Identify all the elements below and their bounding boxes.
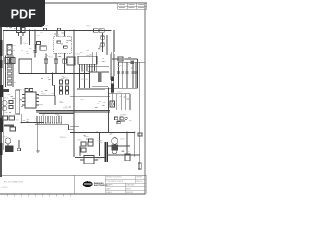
wire: left bus y122: [21, 122, 45, 124]
wire: varistor stub: [20, 36, 22, 45]
dark row component: [4, 125, 14, 127]
ic IC801 PFC controller: [78, 56, 97, 88]
wire: AC top bus: [3, 29, 112, 31]
label speckle texture: [4, 24, 132, 152]
transformer T802: [105, 142, 107, 162]
dark component K801: [4, 89, 10, 92]
svg-text:IC853: IC853: [96, 159, 102, 161]
transistor Q853: [112, 149, 117, 154]
small parts mid: [25, 89, 33, 92]
svg-text:DWG NO: DWG NO: [126, 192, 134, 194]
wire: secondary second bus: [77, 89, 105, 91]
svg-text:IC801: IC801: [75, 54, 81, 56]
left strip blobs: [0, 40, 3, 155]
svg-text:TITLE SMPS CIRCUIT: TITLE SMPS CIRCUIT: [106, 181, 123, 183]
tiny label speckle: [2, 25, 126, 161]
title block top border: [0, 174, 147, 177]
svg-text:S-PDP: S-PDP: [1, 187, 8, 189]
transistor Q803: [2, 100, 7, 110]
resistor R803: [63, 53, 66, 73]
resistor R802: [54, 53, 57, 73]
revision table text marks: [119, 4, 144, 8]
wire: PC801 drop: [20, 114, 22, 123]
wire: stub y126.6: [70, 126, 79, 128]
feedback box: [38, 96, 55, 105]
wire: bottom rail y157.5: [75, 157, 105, 159]
left small boxes row: [3, 116, 16, 131]
svg-text:JP804: JP804: [60, 137, 67, 139]
svg-text:PC801: PC801: [20, 90, 27, 92]
wire: fb bus 2: [36, 111, 110, 113]
bridge rectifier BD801: [19, 59, 32, 73]
secondary verticals: [109, 88, 131, 132]
frame: top border: [44, 2, 147, 5]
wire: x99.5 drop: [99, 132, 101, 156]
wire: fb bus 3: [39, 113, 74, 115]
ground GND1: [36, 151, 39, 152]
wire: left rail: [2, 30, 4, 150]
page background: [0, 0, 149, 198]
wire: x137 vertical: [137, 59, 139, 88]
jumper JP2: [58, 28, 61, 30]
wire: y121: [117, 120, 125, 122]
frame: bottom zone ticks: [7, 194, 70, 196]
small parts row: [115, 117, 128, 124]
left ladder resistor chain: [6, 56, 14, 88]
heatsink dark blob: [5, 146, 14, 152]
frame: left clipped edge strip: [0, 26, 2, 177]
svg-text:CHECKED: CHECKED: [126, 185, 135, 187]
dashed PFC block: [54, 36, 71, 53]
ic IC802: [22, 92, 39, 108]
wire: secondary top bus: [77, 87, 138, 89]
inductor L851: [118, 57, 123, 61]
connector CN801 dots: [36, 122, 62, 123]
wire: drop x37.8: [37, 123, 39, 152]
tall box PC801: [16, 90, 20, 114]
resistor hatch R810: [98, 72, 101, 82]
capacitor C801: [33, 30, 36, 57]
transformer T801: [110, 52, 115, 93]
box bottom middle: [84, 156, 94, 164]
wire: connector bus: [35, 124, 69, 126]
connector CN801 pins: [37, 116, 61, 123]
wire: y93.9: [109, 93, 131, 95]
transistor Q805: [5, 138, 11, 146]
small comp right: [138, 133, 142, 136]
varistor cluster VA801: [17, 27, 26, 37]
wire: jog to rail: [69, 125, 75, 130]
transistor Q852: [112, 138, 119, 151]
title block table: [105, 175, 146, 194]
wire: y146: [108, 145, 130, 147]
svg-text:SCALE: SCALE: [106, 191, 112, 194]
wire: x127 drop: [126, 132, 128, 155]
capacitor bank C85x: [117, 62, 137, 88]
svg-text:APPR: APPR: [126, 187, 131, 190]
title block left divider: [74, 175, 77, 194]
PDF badge: [0, 0, 45, 27]
title block text: [106, 177, 142, 194]
junction dots: [29, 30, 136, 133]
wire: output rail y59: [112, 58, 138, 60]
resistor R801: [44, 54, 47, 74]
wire: long vertical rail: [73, 30, 75, 157]
frame: bottom border: [0, 192, 145, 195]
sub circuit standby: [80, 139, 93, 156]
capacitor chain C81x: [60, 80, 69, 94]
regulator IC851: [110, 101, 115, 107]
revision table top-right: [118, 3, 147, 9]
relay RY801: [36, 42, 46, 54]
fuse F801: [94, 29, 105, 33]
svg-text:REV 00: REV 00: [136, 181, 142, 183]
thermistor TH801: [67, 57, 75, 65]
node junction: [21, 122, 23, 124]
wire: bus y96: [70, 95, 110, 97]
svg-text:NO - 04 CONNECTION: NO - 04 CONNECTION: [4, 182, 24, 184]
wire: right long vertical: [139, 62, 141, 170]
wire: stub x96 box: [80, 159, 98, 161]
wire: long low bus: [70, 131, 135, 133]
samsung electronics text: [94, 182, 108, 187]
diode D851: [131, 61, 135, 65]
wire: bold primary feed: [113, 30, 115, 52]
svg-text:DRAWN: DRAWN: [106, 184, 113, 187]
svg-text:KA3842: KA3842: [81, 78, 89, 81]
wire: vertical from mid bus: [53, 73, 55, 95]
wire: drop from bus: [29, 30, 31, 45]
line filter LF801: [7, 45, 12, 56]
wire: y155: [108, 154, 140, 156]
mosfet column Q801: [101, 33, 107, 55]
resistor cluster left: [9, 101, 13, 109]
svg-text:PDF: PDF: [11, 7, 36, 21]
svg-text:MODEL PS-42P2ST: MODEL PS-42P2ST: [106, 177, 121, 179]
jumper JP1: [44, 28, 47, 30]
svg-text:SHEET: SHEET: [136, 177, 142, 179]
samsung logo ellipse: [83, 181, 93, 187]
snubber network: [88, 52, 109, 86]
wire: dashed box feeds: [57, 30, 65, 36]
capacitor C860 end box: [138, 163, 141, 169]
wire: mid bus: [19, 72, 90, 74]
wire: drop x134.6: [134, 132, 136, 157]
box lower right: [125, 154, 130, 161]
node inside PFC: [57, 41, 67, 48]
wire: output rail y62: [118, 61, 145, 63]
capacitor C802 cluster: [5, 58, 15, 64]
wire: fb bus 1: [36, 110, 110, 112]
frame: right border: [143, 3, 146, 195]
wire: x19 stub: [17, 140, 20, 151]
